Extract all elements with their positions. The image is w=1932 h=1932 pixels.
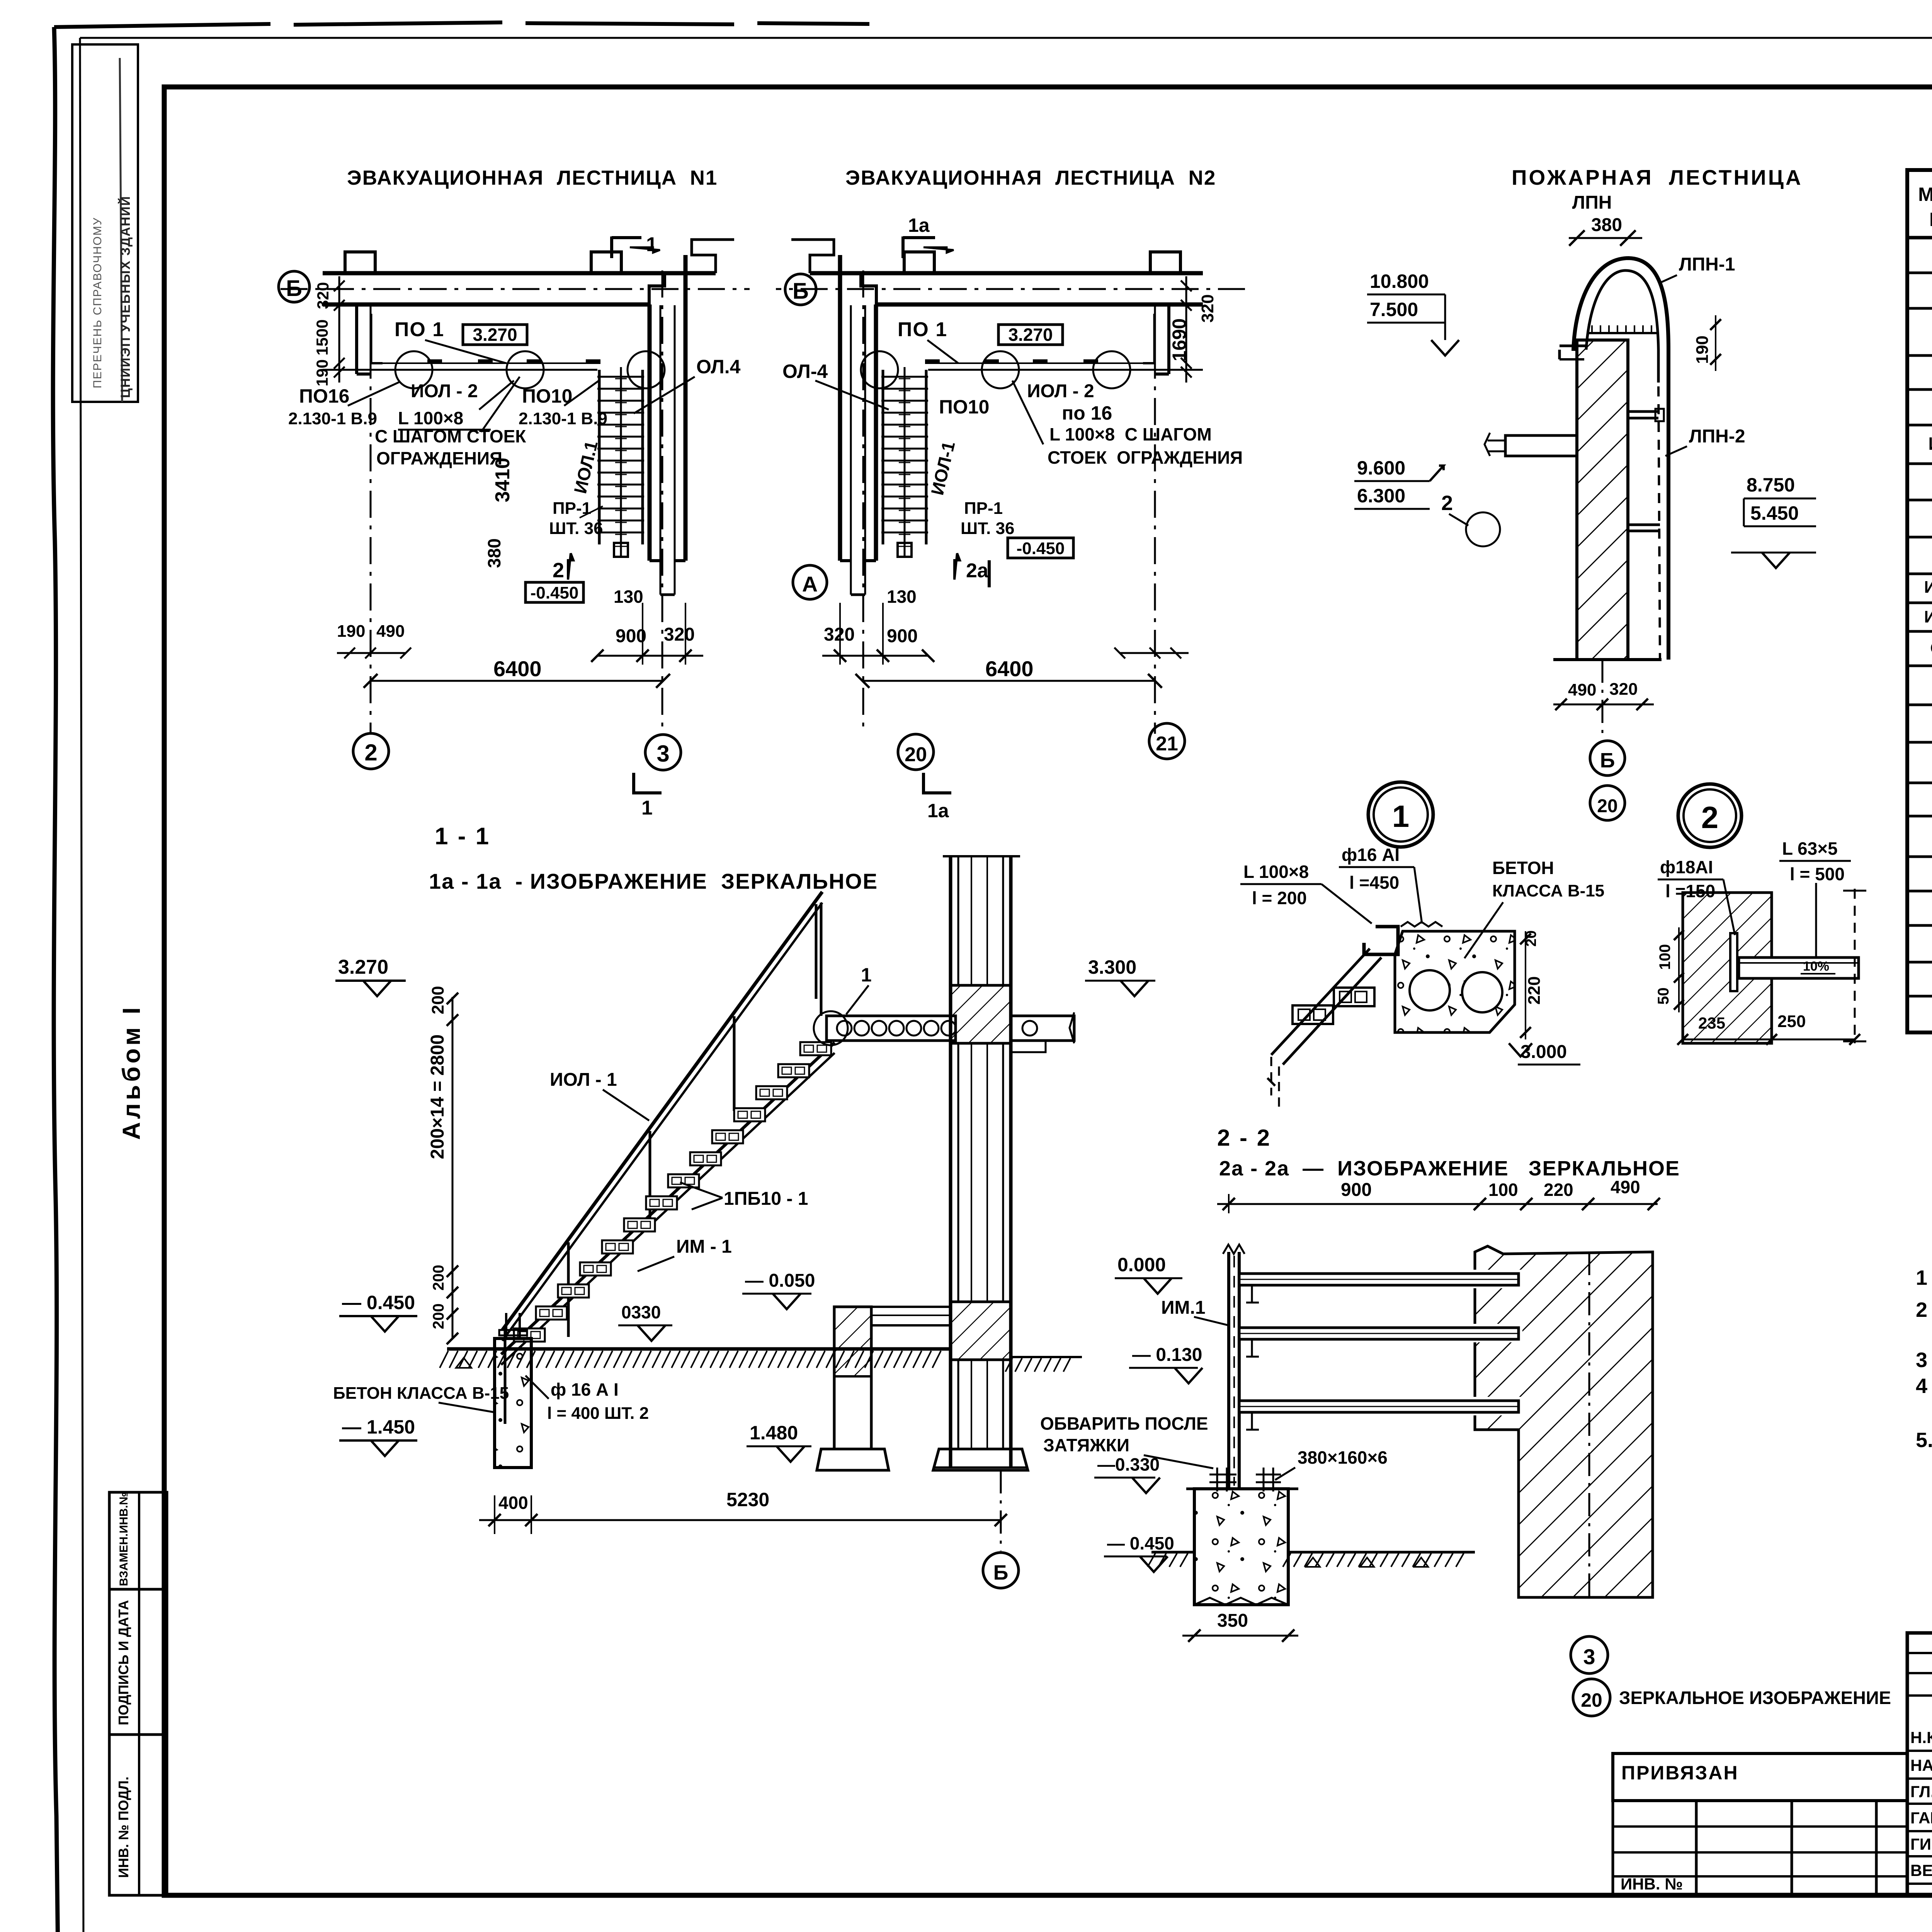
svg-text:200: 200 (429, 986, 447, 1014)
section 1-1 floor slab right with voids (827, 1016, 956, 1041)
detail 2: channel beam (1739, 957, 1859, 978)
svg-text:900: 900 (887, 626, 918, 646)
svg-text:6400: 6400 (985, 656, 1034, 681)
svg-text:3: 3 (656, 741, 669, 767)
svg-text:ЛПН-1: ЛПН-1 (1679, 254, 1735, 275)
svg-text:235: 235 (1698, 1014, 1725, 1032)
svg-text:10.800: 10.800 (1370, 270, 1429, 292)
svg-text:1а: 1а (908, 214, 930, 236)
svg-text:220: 220 (1525, 976, 1544, 1005)
svg-text:5230: 5230 (726, 1489, 769, 1510)
svg-text:320: 320 (824, 624, 855, 645)
svg-text:8.750: 8.750 (1747, 474, 1795, 496)
plan 2 box 3.270 (998, 325, 1063, 345)
svg-text:4 .: 4 . (1916, 1374, 1932, 1398)
svg-text:ГАП: ГАП (1910, 1809, 1932, 1827)
section 2-2 anchor bolts (1216, 1468, 1218, 1492)
specification table grid (1907, 170, 1932, 1032)
fire ladder grille ticks (1591, 325, 1593, 333)
svg-text:0330: 0330 (621, 1302, 661, 1322)
plan 2 box -0.450 (1008, 538, 1073, 558)
svg-text:Б: Б (1600, 749, 1615, 772)
svg-text:ИОЛ - 2: ИОЛ - 2 (1027, 381, 1094, 401)
svg-text:2: 2 (1701, 800, 1719, 835)
svg-text:130: 130 (887, 587, 917, 607)
svg-text:ЦНИИЭП УЧЕБНЫХ ЗДАНИЙ: ЦНИИЭП УЧЕБНЫХ ЗДАНИЙ (118, 196, 133, 398)
svg-text:490: 490 (1611, 1177, 1640, 1197)
section 1-1 ground line and hatch (447, 1347, 951, 1351)
svg-text:20: 20 (905, 743, 927, 766)
privyazan grid (1612, 1801, 1614, 1895)
fire ladder top bracket (1560, 345, 1586, 347)
svg-text:ЛПН: ЛПН (1572, 192, 1612, 213)
fire ladder wall hatched (1577, 340, 1628, 660)
svg-text:— 0.050: — 0.050 (745, 1270, 815, 1291)
fire ladder lower bolt (1628, 524, 1660, 526)
svg-text:220: 220 (1544, 1180, 1573, 1200)
svg-text:2а: 2а (966, 560, 989, 582)
plan 2 section flag 1a top (903, 236, 935, 258)
svg-text:ИНВ. № ПОДЛ.: ИНВ. № ПОДЛ. (116, 1777, 131, 1878)
svg-text:ПО16: ПО16 (299, 385, 349, 407)
svg-text:3.300: 3.300 (1088, 956, 1136, 978)
svg-text:20: 20 (1523, 930, 1539, 947)
svg-text:250: 250 (1777, 1012, 1806, 1031)
svg-text:ГИП: ГИП (1910, 1835, 1932, 1853)
svg-text:ВЗАМЕН.ИНВ.№: ВЗАМЕН.ИНВ.№ (117, 1492, 130, 1586)
svg-text:2: 2 (553, 559, 564, 582)
section 1-1 steps (lintels) (514, 1328, 545, 1342)
svg-text:100: 100 (1488, 1180, 1518, 1200)
svg-text:— 0.130: — 0.130 (1132, 1345, 1202, 1365)
svg-text:по 16: по 16 (1062, 402, 1112, 424)
svg-text:1: 1 (1392, 799, 1410, 833)
section 1-1 axis circle B bottom (1000, 1470, 1002, 1551)
svg-text:l = 200: l = 200 (1252, 888, 1307, 908)
svg-text:190: 190 (1693, 335, 1712, 364)
detail 1: stringer diagonal (1271, 949, 1381, 1065)
svg-text:-0.450: -0.450 (1017, 539, 1065, 558)
svg-text:1а: 1а (927, 800, 949, 821)
svg-text:200×14 = 2800: 200×14 = 2800 (427, 1034, 448, 1159)
section 2-2 ladder post (1227, 1252, 1230, 1489)
svg-text:380×160×6: 380×160×6 (1298, 1447, 1388, 1468)
svg-text:ШТ. 36: ШТ. 36 (549, 519, 603, 538)
svg-text:А: А (802, 572, 818, 596)
svg-text:6.300: 6.300 (1357, 485, 1405, 507)
svg-text:20: 20 (1597, 796, 1617, 816)
svg-text:1.480: 1.480 (750, 1422, 798, 1444)
svg-text:1ПБ10 - 1: 1ПБ10 - 1 (724, 1189, 808, 1209)
svg-text:1500: 1500 (313, 320, 331, 355)
svg-text:ИОЛ - 1: ИОЛ - 1 (550, 1070, 617, 1090)
title block signature grid (1907, 1633, 1932, 1895)
svg-text:НАЧ.АТМ 1: НАЧ.АТМ 1 (1910, 1756, 1932, 1774)
svg-text:2.130-1 В.9: 2.130-1 В.9 (288, 409, 377, 428)
plan 1 section flag 1 bottom (634, 773, 662, 794)
svg-text:3: 3 (1583, 1645, 1595, 1669)
detail 1: serrated anchor bar (1401, 922, 1442, 927)
svg-text:ИНВ. №: ИНВ. № (1621, 1875, 1683, 1893)
svg-text:БЕТОН КЛАССА В-15: БЕТОН КЛАССА В-15 (333, 1384, 509, 1403)
detail 1: lintel blocks (1293, 1005, 1333, 1024)
plan 1 geometry (281, 240, 750, 734)
svg-text:10%: 10% (1803, 959, 1829, 974)
svg-text:Б: Б (993, 1561, 1009, 1584)
section 1-1 slab right of wall (1011, 1016, 1074, 1041)
svg-text:1 - 1: 1 - 1 (435, 823, 490, 850)
plan 2 section flag 1a bottom (923, 773, 951, 794)
svg-text:490: 490 (1568, 680, 1596, 699)
svg-text:ф18АI: ф18АI (1660, 857, 1713, 877)
svg-text:190: 190 (313, 359, 331, 386)
svg-text:7.500: 7.500 (1370, 299, 1418, 320)
svg-text:ЭВАКУАЦИОННАЯ ЛЕСТНИЦА N1: ЭВАКУАЦИОННАЯ ЛЕСТНИЦА N1 (347, 167, 718, 189)
svg-text:— 0.450: — 0.450 (342, 1292, 415, 1313)
svg-text:L 100×8: L 100×8 (398, 408, 463, 428)
section 1-1 railing diagonal band (502, 892, 822, 1330)
section 1-1 ground right side (1011, 1356, 1082, 1358)
svg-text:МАРКА: МАРКА (1918, 184, 1932, 205)
section 1-1 left foundation pier (495, 1338, 531, 1468)
sheet thin border left (80, 38, 83, 1932)
node circle 1 (1368, 782, 1433, 847)
svg-text:ПРИВЯЗАН: ПРИВЯЗАН (1621, 1762, 1739, 1784)
svg-text:400: 400 (498, 1493, 528, 1513)
svg-text:ПО10: ПО10 (939, 396, 989, 418)
detail 1: concrete slab with voids (1395, 931, 1515, 1032)
section 1-1 railing posts (504, 1329, 507, 1424)
svg-text:— 1.450: — 1.450 (342, 1416, 415, 1438)
svg-text:190: 190 (337, 622, 365, 641)
svg-text:380: 380 (1591, 215, 1622, 235)
svg-text:ОЛ-4: ОЛ-4 (782, 361, 828, 382)
svg-text:380: 380 (484, 538, 504, 568)
svg-text:3 .: 3 . (1916, 1349, 1932, 1372)
plan 2 axis circle 21 (1149, 723, 1185, 759)
svg-text:Альбом I: Альбом I (117, 1004, 145, 1140)
svg-text:ОЛ- 4: ОЛ- 4 (1930, 639, 1932, 658)
svg-text:9.600: 9.600 (1357, 457, 1405, 479)
plan 2 axis circle A (793, 565, 827, 599)
node circle 2 (1678, 784, 1742, 847)
svg-text:3.270: 3.270 (473, 325, 517, 345)
svg-text:2: 2 (1441, 492, 1453, 515)
svg-text:350: 350 (1217, 1611, 1248, 1631)
svg-text:320: 320 (1609, 680, 1638, 699)
svg-text:КЛАССА В-15: КЛАССА В-15 (1492, 881, 1604, 900)
section 1-1 left dim chain (452, 997, 454, 1338)
svg-text:1690: 1690 (1168, 318, 1190, 361)
plan 1 axis circle B (279, 271, 310, 302)
section 1-1 stringer band (501, 1043, 835, 1354)
svg-text:ЗЕРКАЛЬНОЕ ИЗОБРАЖЕНИЕ: ЗЕРКАЛЬНОЕ ИЗОБРАЖЕНИЕ (1619, 1687, 1891, 1708)
svg-text:ИМ- 1: ИМ- 1 (1928, 434, 1932, 454)
privyazan box (1613, 1753, 1907, 1801)
svg-text:2а - 2а — ИЗОБРАЖЕНИЕ ЗЕРК: 2а - 2а — ИЗОБРАЖЕНИЕ ЗЕРКАЛЬНОЕ (1219, 1157, 1680, 1180)
svg-text:50: 50 (1655, 988, 1672, 1005)
svg-text:ПОДПИСЬ И ДАТА: ПОДПИСЬ И ДАТА (116, 1600, 131, 1725)
svg-text:1: 1 (641, 797, 653, 819)
svg-text:320: 320 (314, 282, 332, 309)
fire ladder left floor slab (1505, 435, 1577, 456)
section 2-2 foundation block (1194, 1489, 1288, 1605)
svg-text:-0.450: -0.450 (531, 583, 579, 602)
section 2-2 axis circles 3 and 20 (1571, 1636, 1608, 1673)
section 2-2 rung slots (1468, 1270, 1522, 1288)
left margin stamp boxes (109, 1492, 167, 1589)
plan 2 axis circle B (785, 274, 816, 305)
svg-text:2.130-1 В.9: 2.130-1 В.9 (519, 409, 607, 428)
svg-text:ВЕД.ИНЖ.: ВЕД.ИНЖ. (1910, 1861, 1932, 1879)
svg-text:320: 320 (664, 624, 695, 645)
svg-text:900: 900 (616, 626, 646, 646)
plan 1 axis circle 3 (645, 735, 681, 770)
svg-text:l = 400 ШТ. 2: l = 400 ШТ. 2 (547, 1404, 649, 1423)
svg-text:6400: 6400 (493, 656, 542, 681)
section 1-1 middle floor band (871, 1307, 951, 1325)
svg-text:490: 490 (376, 622, 405, 641)
svg-text:5.450: 5.450 (1750, 502, 1799, 524)
svg-text:ф16 АI: ф16 АI (1342, 845, 1400, 865)
detail 1: dims 220 20 (1525, 931, 1526, 1039)
plan 2 axis circle 20 (898, 734, 934, 770)
svg-text:Б: Б (793, 279, 809, 304)
section 2-2 ground lines (1151, 1551, 1194, 1554)
svg-text:ИМ - 1: ИМ - 1 (676, 1236, 732, 1257)
svg-text:ПО10: ПО10 (522, 385, 572, 407)
plan 1 section flag 1 top (612, 236, 641, 258)
svg-text:1 .: 1 . (1916, 1266, 1932, 1289)
svg-text:320: 320 (1198, 294, 1217, 323)
fire ladder mid bracket (1628, 410, 1658, 413)
svg-text:ИОЛ- 1: ИОЛ- 1 (1924, 578, 1932, 597)
svg-text:ИМ.1: ИМ.1 (1161, 1298, 1206, 1318)
svg-text:ф 16 А I: ф 16 А I (551, 1379, 619, 1400)
plan 2 geometry (mirrored) (776, 240, 1245, 734)
svg-text:5.: 5. (1916, 1429, 1932, 1452)
detail 2: right dashed edge (1854, 889, 1856, 1043)
svg-text:БЕТОН: БЕТОН (1492, 858, 1554, 878)
svg-text:ЛПН-2: ЛПН-2 (1689, 426, 1745, 447)
svg-text:0.000: 0.000 (1117, 1254, 1166, 1276)
svg-text:3.000: 3.000 (1520, 1042, 1567, 1062)
svg-text:130: 130 (614, 587, 643, 607)
svg-text:200: 200 (430, 1303, 447, 1329)
svg-text:Б: Б (286, 276, 302, 301)
section 2-2 axis dashed in wall (1588, 1252, 1590, 1597)
svg-text:ОБВАРИТЬ ПОСЛЕ: ОБВАРИТЬ ПОСЛЕ (1040, 1413, 1208, 1434)
sheet thin border top (80, 37, 1932, 39)
section 1-1 flared base (933, 1449, 1028, 1470)
svg-text:3.270: 3.270 (338, 956, 388, 978)
detail 2: anchor plate (1730, 933, 1737, 991)
svg-text:L 100×8: L 100×8 (1243, 862, 1309, 882)
svg-text:ЗАТЯЖКИ: ЗАТЯЖКИ (1043, 1435, 1129, 1455)
section 2-2 wall hatched (1475, 1246, 1653, 1597)
svg-text:100: 100 (1656, 944, 1673, 970)
svg-text:900: 900 (1341, 1180, 1372, 1200)
svg-text:1а - 1а - ИЗОБРАЖЕНИЕ ЗЕРКАЛ: 1а - 1а - ИЗОБРАЖЕНИЕ ЗЕРКАЛЬНОЕ (429, 869, 878, 893)
svg-text:—0.330: —0.330 (1097, 1454, 1160, 1475)
svg-text:L 63×5: L 63×5 (1782, 838, 1838, 859)
svg-text:ПР-1: ПР-1 (964, 499, 1003, 518)
svg-text:3410: 3410 (492, 457, 514, 502)
svg-text:20: 20 (1581, 1689, 1602, 1711)
svg-text:ПО 1: ПО 1 (898, 318, 947, 341)
svg-text:200: 200 (430, 1265, 447, 1291)
svg-text:2 .: 2 . (1916, 1298, 1932, 1321)
fire ladder axis circles (1602, 660, 1604, 740)
svg-text:Н.КОНТР.: Н.КОНТР. (1910, 1728, 1932, 1747)
svg-text:ЭВАКУАЦИОННАЯ ЛЕСТНИЦА N2: ЭВАКУАЦИОННАЯ ЛЕСТНИЦА N2 (845, 167, 1216, 189)
svg-text:ПОЖАРНАЯ ЛЕСТНИЦА: ПОЖАРНАЯ ЛЕСТНИЦА (1512, 165, 1803, 189)
svg-text:— 0.450: — 0.450 (1107, 1533, 1174, 1553)
svg-text:l = 500: l = 500 (1790, 864, 1845, 884)
detail 2: wall hatched (1683, 893, 1772, 1043)
sheet rough top edge (54, 22, 869, 27)
svg-text:ПОЗ.: ПОЗ. (1929, 209, 1932, 230)
svg-text:ОЛ.4: ОЛ.4 (696, 356, 741, 378)
svg-text:3.270: 3.270 (1008, 325, 1053, 345)
section 1-1 wall column (949, 856, 952, 1468)
svg-text:ИОЛ - 2: ИОЛ - 2 (411, 381, 478, 401)
section 1-1 wall hatch bands (951, 985, 1011, 1043)
top-left stamp box (72, 44, 138, 402)
svg-text:ИОЛ- 2: ИОЛ- 2 (1924, 607, 1932, 626)
detail 1: steel angle section (1364, 927, 1398, 954)
section 1-1 wall top cut (943, 855, 1020, 857)
svg-text:l =150: l =150 (1665, 881, 1715, 901)
section 1-1 right pier (834, 1307, 871, 1449)
svg-text:ПЕРЕЧЕНЬ СПРАВОЧНОМУ: ПЕРЕЧЕНЬ СПРАВОЧНОМУ (91, 217, 104, 388)
svg-text:2: 2 (364, 740, 377, 765)
svg-text:С ШАГОМ СТОЕК: С ШАГОМ СТОЕК (375, 426, 526, 446)
svg-text:ОГРАЖДЕНИЯ: ОГРАЖДЕНИЯ (376, 448, 502, 468)
svg-text:21: 21 (1156, 733, 1178, 755)
fire ladder base (1553, 658, 1662, 661)
plan 1 axis circle 2 (353, 733, 389, 769)
svg-text:2 - 2: 2 - 2 (1217, 1125, 1271, 1151)
section 2-2 rungs (1239, 1274, 1519, 1285)
detail 2: dims 100 50 (1678, 927, 1680, 1012)
svg-text:ГЛ.ИНЖ: ГЛ.ИНЖ (1910, 1782, 1932, 1801)
svg-text:ПО 1: ПО 1 (395, 318, 444, 341)
svg-text:L 100×8 С ШАГОМ: L 100×8 С ШАГОМ (1049, 424, 1212, 444)
svg-text:l =450: l =450 (1349, 872, 1399, 893)
svg-text:1: 1 (861, 964, 872, 986)
svg-text:СТОЕК ОГРАЖДЕНИЯ: СТОЕК ОГРАЖДЕНИЯ (1048, 447, 1243, 468)
fire ladder hook (1573, 258, 1668, 660)
svg-text:ШТ. 36: ШТ. 36 (961, 519, 1015, 538)
sheet rough left edge (53, 27, 58, 1932)
